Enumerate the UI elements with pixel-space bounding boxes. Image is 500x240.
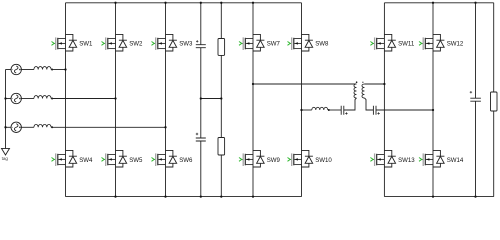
wire output bridge leg B	[432, 3, 434, 197]
wire LA to bridge leg	[52, 69, 65, 71]
wire H-bridge legA to transformer primary top	[253, 83, 357, 85]
svg-text:SW1: SW1	[79, 41, 93, 48]
node output bottom bus x475.5	[474, 195, 476, 197]
wire VC to inductor	[21, 126, 34, 128]
node output bridge legB mid	[432, 109, 434, 111]
node DC mid right	[220, 97, 222, 99]
wire top DC bus (output stage)	[384, 2, 493, 4]
switch SW14 MOSFET with antiparallel diode	[419, 150, 464, 167]
capacitor Cs (secondary blocking)	[373, 106, 379, 115]
wire secondary top to output bridge legA	[365, 83, 385, 85]
node top bus x253	[252, 2, 254, 4]
node LA output	[51, 69, 53, 71]
wire Cs to output bridge legB	[376, 109, 433, 111]
node output top bus x433	[432, 2, 434, 4]
node bottom bus x165.5	[164, 195, 166, 197]
transformer T1 primary winding	[354, 84, 357, 98]
node output bridge legA mid	[383, 83, 385, 85]
svg-text:SW6: SW6	[179, 157, 193, 164]
wire VB left terminal	[6, 98, 12, 100]
wire VB to inductor	[21, 98, 34, 100]
node bottom bus x115.5	[114, 195, 116, 197]
wire LC to bridge leg	[52, 126, 165, 128]
transformer T1 secondary winding	[362, 84, 365, 98]
wire load branch	[493, 3, 495, 197]
transformer T1 secondary polarity dot	[362, 82, 363, 83]
wire top DC bus (rectifier stage)	[66, 2, 302, 4]
wire DC-link capacitor branch	[200, 3, 202, 197]
inductor Lr (series)	[312, 107, 328, 110]
wire H-bridge legB mid to Lr	[302, 109, 312, 111]
node top bus x200.8	[200, 2, 202, 4]
wire Cp to primary bottom	[344, 98, 357, 110]
wire rectifier leg 1	[65, 3, 67, 197]
node DC mid left	[200, 97, 202, 99]
svg-text:SW5: SW5	[129, 157, 143, 164]
resistor Rload	[491, 92, 498, 111]
capacitor Cp (primary blocking)	[341, 106, 347, 115]
switch SW6 MOSFET with antiparallel diode	[152, 150, 194, 167]
node bottom bus x200.8	[200, 195, 202, 197]
wire bottom DC bus (rectifier stage)	[66, 196, 302, 198]
node H-bridge legA mid	[252, 83, 254, 85]
inductor LA	[34, 67, 51, 70]
node bottom bus x253	[252, 195, 254, 197]
switch SW12 MOSFET with antiparallel diode	[419, 34, 464, 51]
resistor R2 (lower balancing)	[218, 138, 225, 156]
transformer T1 primary polarity dot	[356, 81, 358, 83]
AC voltage source VC	[11, 122, 21, 132]
node bottom bus x221.3	[220, 195, 222, 197]
switch SW1 MOSFET with antiparallel diode	[52, 34, 94, 51]
switch SW11 MOSFET with antiparallel diode	[370, 34, 414, 51]
node top bus x115.5	[114, 2, 116, 4]
node phase A / leg1	[64, 68, 66, 70]
node output top bus x475.5	[474, 2, 476, 4]
wire bottom DC bus (output stage)	[384, 196, 493, 198]
node phase B / leg2	[114, 97, 116, 99]
wire Lr to Cp	[329, 109, 341, 111]
node top bus x165.5	[164, 2, 166, 4]
svg-text:SW3: SW3	[179, 41, 193, 48]
switch SW2 MOSFET with antiparallel diode	[102, 34, 144, 51]
svg-text:SW9: SW9	[267, 157, 281, 164]
capacitor C2 (lower DC-link)	[196, 133, 206, 141]
wire DC-link resistor branch	[220, 3, 222, 197]
node output bottom bus x433	[432, 195, 434, 197]
switch SW5 MOSFET with antiparallel diode	[102, 150, 144, 167]
wire H-bridge leg B	[301, 3, 303, 197]
wire LB to bridge leg	[52, 98, 115, 100]
wire H-bridge leg A	[252, 3, 254, 197]
svg-text:SW10: SW10	[315, 157, 332, 164]
capacitor Co (output)	[470, 91, 481, 101]
wire VC left terminal	[6, 126, 12, 128]
svg-text:SW13: SW13	[398, 157, 415, 164]
node left bus / VB junction	[4, 97, 6, 99]
switch SW13 MOSFET with antiparallel diode	[370, 150, 415, 167]
switch SW10 MOSFET with antiparallel diode	[288, 150, 333, 167]
switch SW3 MOSFET with antiparallel diode	[152, 34, 194, 51]
wire left input bus	[5, 70, 7, 149]
node phase C / leg3	[164, 126, 166, 128]
svg-text:tag: tag	[2, 156, 9, 161]
svg-text:SW12: SW12	[447, 41, 464, 48]
svg-text:SW8: SW8	[315, 41, 329, 48]
AC voltage source VB	[11, 93, 21, 103]
ground label tag	[2, 156, 9, 161]
switch SW9 MOSFET with antiparallel diode	[239, 150, 281, 167]
wire VA left terminal	[6, 69, 12, 71]
wire rectifier leg 3	[165, 3, 167, 197]
node Lr output	[328, 109, 330, 111]
switch SW4 MOSFET with antiparallel diode	[52, 150, 94, 167]
capacitor C1 (upper DC-link)	[196, 40, 206, 48]
node left bus / VC junction	[4, 126, 6, 128]
wire VA to inductor	[21, 69, 34, 71]
svg-text:SW7: SW7	[267, 41, 281, 48]
inductor LB	[34, 96, 51, 99]
node H-bridge legB mid	[300, 109, 302, 111]
node LB output	[51, 98, 53, 100]
ground	[2, 148, 10, 155]
node top bus x221.3	[220, 2, 222, 4]
node LC output	[51, 126, 53, 128]
wire output bridge leg A	[383, 3, 385, 197]
resistor R1 (upper balancing)	[218, 39, 225, 56]
svg-text:SW4: SW4	[79, 157, 93, 164]
switch SW8 MOSFET with antiparallel diode	[288, 34, 330, 51]
svg-text:SW2: SW2	[129, 41, 143, 48]
wire secondary bottom to Cs	[365, 98, 374, 110]
svg-text:SW14: SW14	[447, 157, 464, 164]
inductor LC	[34, 124, 51, 127]
wire DC-link midpoint	[201, 98, 222, 100]
wire rectifier leg 2	[115, 3, 117, 197]
svg-text:SW11: SW11	[398, 41, 415, 48]
wire output capacitor branch	[475, 3, 477, 197]
switch SW7 MOSFET with antiparallel diode	[239, 34, 281, 51]
AC voltage source VA	[11, 64, 21, 74]
